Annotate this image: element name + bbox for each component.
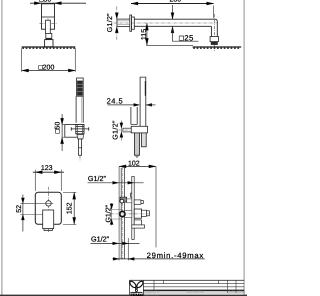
dimension 280 (text cut at top) — [131, 0, 214, 5]
stub vertical centerline — [116, 7, 118, 41]
hose centerline — [79, 155, 81, 160]
extension lines 123 — [34, 170, 36, 191]
dimension square-50 (text cut at top) — [30, 0, 86, 5]
dimension square-50 — [54, 114, 65, 151]
dimension G1/2 stub — [111, 120, 123, 141]
shower head plate (side view) — [22, 46, 76, 48]
wall plane line left (min) — [118, 166, 120, 260]
plate vertical centerline — [47, 187, 49, 233]
hand shower head — [77, 78, 84, 96]
svg-text:G1/2”: G1/2” — [91, 235, 110, 244]
svg-text:□50: □50 — [39, 0, 51, 3]
svg-text:102: 102 — [128, 160, 140, 167]
elbow vertical centerline — [214, 14, 216, 51]
outlet circle mid (dark) — [120, 211, 125, 216]
upper outlet pipe — [131, 107, 137, 124]
hose connector — [79, 139, 82, 155]
top port fitting dark — [120, 197, 127, 202]
page bottom border — [0, 294, 247, 296]
cartridge mid — [142, 210, 147, 216]
hand shower handle — [76, 96, 83, 123]
svg-text:G1/2”: G1/2” — [88, 174, 107, 183]
G1/2 threaded stub pipe — [117, 19, 130, 26]
dimension 24.5 — [107, 97, 156, 107]
upper body cap — [141, 201, 143, 204]
extension line to head plane — [146, 44, 193, 46]
stub dim arrow down — [115, 13, 118, 20]
dimension 29min-49max — [113, 251, 205, 260]
svg-text:280: 280 — [169, 0, 181, 3]
elbow dark nut — [211, 42, 218, 45]
second wall line — [127, 238, 129, 260]
head nozzles (wall arm) — [193, 48, 195, 49]
handle lower tube — [142, 133, 147, 147]
cartridge body — [134, 209, 141, 218]
head connector bump — [45, 40, 53, 47]
svg-text:□200: □200 — [38, 65, 54, 72]
dimension 123 — [33, 165, 64, 174]
arm collar — [46, 33, 52, 38]
svg-text:G1/2”: G1/2” — [106, 13, 114, 32]
svg-text:SCALA: SCALA — [237, 290, 246, 293]
svg-text:152: 152 — [66, 202, 73, 214]
mounting bracket plate — [132, 177, 134, 240]
G1/2 wall stub — [123, 128, 131, 132]
dim square-25 lower arrow and leader — [171, 26, 199, 41]
arm horizontal centerline — [114, 22, 217, 24]
dimension 115 — [141, 23, 149, 45]
mid connector — [124, 211, 131, 218]
holder body side — [131, 126, 147, 133]
hand shower bar side view — [140, 77, 146, 126]
cartridge stem — [146, 211, 149, 216]
extension to circle — [20, 202, 53, 204]
svg-text:29min.-49max: 29min.-49max — [147, 251, 204, 260]
dimension G1/2 mid (rotated) — [105, 203, 122, 226]
vertical centerline (ceiling shower axis) — [47, 19, 49, 47]
wall flange body — [132, 17, 135, 29]
svg-text:115: 115 — [141, 29, 148, 40]
extension line right of 280 — [213, 6, 215, 19]
dim square-25 upper arrow — [171, 5, 174, 19]
mixer handle — [43, 210, 54, 230]
holder clamp ring — [76, 125, 84, 134]
logo butterfly mark — [129, 280, 144, 292]
svg-text:52: 52 — [16, 205, 23, 213]
dimension 102 — [119, 160, 156, 168]
elbow collar — [210, 37, 218, 42]
svg-text:DATA: DATA — [229, 290, 236, 293]
top connector — [127, 199, 132, 203]
screw circle top — [120, 199, 124, 203]
extension line right — [74, 48, 76, 72]
svg-text:G1/2”: G1/2” — [105, 204, 113, 222]
svg-text:G1/2”: G1/2” — [111, 120, 119, 140]
dimension 52 — [16, 195, 24, 232]
lower body fitting — [134, 220, 141, 225]
dimension 152 — [63, 192, 76, 224]
extension to handle axis — [20, 214, 48, 216]
svg-text:□25: □25 — [179, 33, 194, 42]
wall plane line right (max) — [155, 166, 157, 247]
label G1/2 bottom — [91, 235, 140, 245]
stub centerline — [119, 129, 132, 131]
mid port centerline — [111, 213, 151, 215]
arm slot — [46, 20, 51, 33]
hose cone nut — [77, 135, 84, 139]
svg-text:123: 123 — [41, 165, 53, 172]
shower head plate (wall arm) — [193, 46, 242, 48]
hanging hose (hatched) — [134, 133, 139, 158]
dimension square-200 — [22, 65, 76, 73]
ceiling flange outer box — [42, 4, 55, 29]
extension line left — [21, 48, 23, 72]
page left border — [1, 0, 3, 296]
head spray nozzles — [22, 48, 24, 49]
title block frame — [129, 280, 244, 295]
svg-text:DESCRIZIONE: DESCRIZIONE — [187, 290, 205, 293]
svg-text:□50: □50 — [54, 122, 61, 134]
riser centerline — [122, 167, 124, 260]
title block tiny text — [144, 290, 246, 296]
lower wide fitting — [132, 225, 145, 228]
wall flange square-50 — [65, 125, 78, 138]
svg-text:24.5: 24.5 — [107, 97, 124, 106]
flange horizontal centerline — [40, 22, 57, 24]
arm pipe — [134, 19, 217, 36]
page right border — [243, 0, 245, 296]
label G1/2 top — [88, 174, 144, 184]
holder pivot pin — [71, 127, 89, 130]
diverter knob circle — [46, 201, 51, 206]
mixer cover plate — [35, 192, 61, 224]
wall flange plate — [130, 15, 132, 31]
riser pipe — [121, 168, 124, 259]
top small fitting — [131, 193, 134, 197]
upper body fitting — [134, 200, 141, 204]
stub dim arrow up — [115, 26, 118, 33]
collar dark nut — [46, 38, 52, 39]
